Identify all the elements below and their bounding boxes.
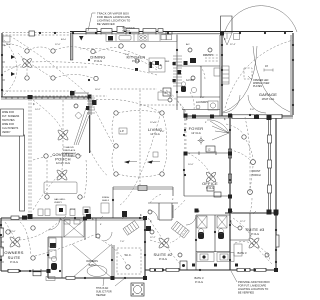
svg-text:15'-8": 15'-8" [70,209,76,211]
svg-text:WIRE FOR: WIRE FOR [2,123,14,126]
svg-text:SHELF: SHELF [102,200,110,202]
svg-text:DINING: DINING [90,55,105,60]
svg-text:OWNERS: OWNERS [86,259,98,263]
svg-text:BATH 3: BATH 3 [195,276,204,280]
svg-text:8'-6": 8'-6" [160,131,165,133]
svg-text:9' CLG: 9' CLG [159,257,167,261]
svg-text:16': 16' [265,65,269,68]
svg-text:12'-2": 12'-2" [150,237,156,239]
svg-text:16'-0": 16'-0" [95,89,101,91]
svg-text:22'-4": 22'-4" [230,44,236,46]
svg-text:9'-4": 9'-4" [125,54,130,56]
svg-text:A/C: A/C [186,43,190,46]
svg-text:11'-6": 11'-6" [6,44,12,46]
svg-text:CLG PATENTS: CLG PATENTS [2,127,19,130]
svg-text:W/ OWNER: W/ OWNER [63,156,75,158]
svg-text:FIREPLACE: FIREPLACE [63,149,76,152]
svg-text:VERIFY: VERIFY [54,202,62,204]
svg-text:PANTRY: PANTRY [203,53,214,57]
svg-text:EZ-4: EZ-4 [61,39,67,41]
svg-text:TV ABOVE: TV ABOVE [63,146,74,149]
svg-text:12' CLG: 12' CLG [191,131,200,135]
svg-text:BATH: BATH [89,263,96,267]
svg-text:SUITE #3: SUITE #3 [246,227,266,232]
svg-text:W.I.C.: W.I.C. [124,253,131,257]
svg-text:PORCH: PORCH [251,173,260,177]
svg-text:PLATES: PLATES [253,85,262,88]
svg-text:1/2 BA: 1/2 BA [186,78,194,82]
svg-text:SWITCHES: SWITCHES [2,119,15,122]
svg-text:9' CLG: 9' CLG [94,59,102,63]
svg-text:12'x16' CLG: 12'x16' CLG [56,161,70,165]
svg-text:GARAGE: GARAGE [259,92,277,97]
svg-text:14'-2": 14'-2" [35,109,41,111]
svg-text:BE VERIFIED: BE VERIFIED [238,291,254,295]
svg-text:18'x8' CLG: 18'x8' CLG [262,97,275,101]
svg-text:FRONT: FRONT [252,169,261,173]
svg-text:GAS GRILL: GAS GRILL [54,198,66,201]
svg-text:WIRE FOR: WIRE FOR [2,111,14,114]
svg-text:9'-0": 9'-0" [250,109,255,111]
svg-text:9' CLG: 9' CLG [10,260,18,264]
svg-text:LAUNDRY: LAUNDRY [196,100,209,104]
svg-text:12'-2": 12'-2" [240,221,246,223]
svg-text:BATH 3: BATH 3 [238,251,247,255]
svg-text:9' CLG: 9' CLG [251,232,259,236]
svg-text:BE VERIFIED: BE VERIFIED [97,22,115,26]
svg-text:9' CLG: 9' CLG [195,280,203,284]
svg-text:FOR MEAN LANDSCAPE: FOR MEAN LANDSCAPE [97,15,130,19]
svg-text:FUT. SCREENS: FUT. SCREENS [2,115,20,118]
svg-text:FINISH: FINISH [102,197,110,199]
svg-text:REF: REF [165,61,170,63]
svg-text:12'x14': 12'x14' [150,122,157,124]
svg-text:KITCHEN: KITCHEN [127,55,146,60]
svg-text:12'-0": 12'-0" [55,44,61,46]
svg-text:14' CLG: 14' CLG [150,132,159,136]
svg-text:9' CLG: 9' CLG [132,59,140,63]
svg-text:HEATER: HEATER [96,294,106,297]
svg-text:7'-6": 7'-6" [120,241,125,243]
svg-text:PROVIDE JUNCTION BOX: PROVIDE JUNCTION BOX [238,280,270,284]
svg-text:6'-8": 6'-8" [200,97,205,99]
svg-text:TRACK OR VAPOR BOX: TRACK OR VAPOR BOX [97,12,129,16]
svg-text:10'-0": 10'-0" [188,164,194,166]
svg-text:13'-0": 13'-0" [10,231,16,233]
svg-text:FOR FUT. LANDSCAPE: FOR FUT. LANDSCAPE [238,284,266,288]
svg-text:L.P.: L.P. [120,129,125,133]
svg-text:VENT HOOD: VENT HOOD [122,28,135,30]
svg-text:FOYER: FOYER [189,126,204,131]
svg-text:SUITE: SUITE [8,255,21,260]
svg-text:9' CLG: 9' CLG [206,186,214,190]
svg-text:LIGHTING LOCATION TO: LIGHTING LOCATION TO [238,287,268,291]
svg-text:OFFICE: OFFICE [202,181,218,186]
svg-text:VERIFY: VERIFY [2,131,11,134]
svg-text:LIGHTING LOCATION TO: LIGHTING LOCATION TO [97,19,130,23]
svg-text:SUITE #2: SUITE #2 [154,252,174,257]
